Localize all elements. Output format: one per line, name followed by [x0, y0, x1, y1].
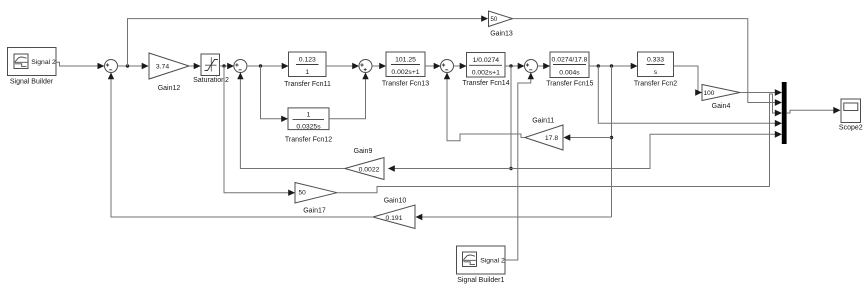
block Signal Builder — [8, 48, 57, 86]
summing junction Sum5 — [525, 60, 538, 73]
svg-text:0.0274/17.8: 0.0274/17.8 — [552, 56, 588, 63]
block Transfer Fcn14 — [462, 53, 509, 88]
wire branch Transfer Fcn15 down to node B — [611, 66, 613, 217]
svg-text:0.333: 0.333 — [647, 56, 664, 63]
wire Transfer Fcn13 to Sum4 — [425, 63, 441, 69]
wire node B to Gain11 — [564, 134, 612, 140]
svg-text:Gain13: Gain13 — [490, 30, 513, 37]
wire Sum5 to Transfer Fcn15 — [538, 63, 551, 69]
wire node A to Gain9 — [388, 165, 511, 171]
svg-text:0.191: 0.191 — [385, 215, 402, 222]
svg-text:Transfer Fcn11: Transfer Fcn11 — [284, 81, 331, 88]
wire Saturation2 to Sum2 — [220, 63, 235, 69]
svg-text:50: 50 — [491, 17, 498, 23]
summing junction Sum3 — [359, 60, 372, 73]
svg-text:0.123: 0.123 — [299, 56, 316, 63]
gain Gain12 — [149, 53, 189, 92]
node A junction — [509, 167, 512, 170]
wire node B to Gain10 — [416, 214, 612, 220]
wire Signal Builder to Sum1 — [56, 62, 104, 69]
svg-text:Gain9: Gain9 — [354, 148, 373, 155]
wire Transfer Fcn14 to Sum5 — [505, 63, 525, 69]
block Transfer Fcn15 — [546, 52, 593, 88]
svg-text:Signal Builder1: Signal Builder1 — [457, 277, 504, 284]
summing junction Sum1 — [105, 60, 118, 73]
svg-text:Scope2: Scope2 — [839, 125, 863, 132]
svg-text:Gain4: Gain4 — [712, 103, 731, 110]
svg-text:Transfer Fcn2: Transfer Fcn2 — [634, 81, 677, 88]
wire branch Sum1 to Gain13 (top line) — [128, 15, 489, 66]
svg-text:Transfer Fcn13: Transfer Fcn13 — [382, 81, 429, 88]
svg-text:0.002s+1: 0.002s+1 — [391, 69, 419, 76]
wire Sum3 to Transfer Fcn13 — [372, 63, 386, 69]
svg-text:Gain11: Gain11 — [532, 117, 554, 124]
svg-text:Gain17: Gain17 — [303, 208, 326, 215]
svg-text:1: 1 — [307, 112, 311, 119]
block Saturation2 — [193, 54, 229, 84]
wire Mux to Scope2 — [787, 107, 841, 114]
svg-text:Gain10: Gain10 — [384, 197, 407, 204]
gain Gain10 — [373, 197, 415, 228]
svg-text:Signal 2: Signal 2 — [31, 59, 56, 66]
gain Gain4 — [702, 85, 740, 111]
svg-text:0.0325s: 0.0325s — [296, 123, 321, 130]
svg-text:100: 100 — [704, 90, 715, 97]
wire Transfer Fcn11 to Sum3 — [326, 63, 359, 69]
svg-text:1: 1 — [305, 69, 309, 76]
wire Sum2 to Transfer Fcn11 — [247, 63, 289, 69]
wire branch Saturation2 to Gain17 — [224, 66, 295, 196]
wire Gain17 to Mux input 3 — [337, 94, 782, 193]
svg-text:Transfer Fcn14: Transfer Fcn14 — [462, 80, 509, 87]
svg-text:17.8: 17.8 — [545, 135, 558, 142]
block Transfer Fcn11 — [284, 52, 331, 88]
svg-text:s: s — [654, 69, 658, 76]
gain Gain9 — [345, 148, 384, 180]
wire Gain4 to Mux input 1 — [740, 89, 782, 96]
wire Sum1 to Gain12 — [118, 63, 149, 69]
wire Transfer Fcn2 to Gain4 — [674, 66, 703, 96]
svg-text:0.0022: 0.0022 — [359, 166, 380, 173]
wire node A to Mux input 5 — [511, 131, 782, 169]
wire Signal Builder1 to Sum5 — [505, 73, 534, 261]
svg-text:Gain12: Gain12 — [158, 85, 181, 92]
wire Gain11 to Sum4 — [444, 73, 525, 141]
wire Gain12 to Saturation2 — [189, 63, 201, 69]
block Transfer Fcn12 — [285, 108, 332, 144]
svg-text:Signal Builder: Signal Builder — [10, 79, 54, 86]
gain Gain11 — [525, 117, 563, 150]
block Signal Builder1 — [457, 246, 506, 284]
block Scope2 — [839, 99, 863, 132]
svg-text:Transfer Fcn12: Transfer Fcn12 — [285, 137, 332, 144]
svg-text:1/0.0274: 1/0.0274 — [473, 57, 500, 64]
mux Mux1 — [782, 82, 787, 144]
gain Gain13 — [489, 11, 513, 37]
block Transfer Fcn2 — [634, 52, 677, 88]
wire Gain9 to Sum2 — [237, 73, 345, 169]
block Transfer Fcn13 — [382, 52, 429, 88]
wire Gain10 to Sum1 — [108, 73, 373, 218]
summing junction Sum4 — [441, 60, 454, 73]
gain Gain17 — [295, 183, 337, 215]
svg-text:3.74: 3.74 — [156, 64, 169, 71]
svg-text:Signal 2: Signal 2 — [480, 257, 505, 264]
svg-text:50: 50 — [299, 190, 307, 197]
svg-text:0.002s+1: 0.002s+1 — [472, 70, 500, 77]
wire Transfer Fcn15 to Transfer Fcn2 — [589, 63, 638, 69]
svg-text:0.004s: 0.004s — [559, 69, 580, 76]
wire Gain13 to Mux input 2 — [513, 19, 783, 106]
wire branch Transfer Fcn14 down to node A — [510, 66, 512, 169]
wire Sum4 to Transfer Fcn14 — [454, 63, 467, 69]
wire branch Sum2 to Transfer Fcn12 — [261, 66, 289, 122]
svg-text:Transfer Fcn15: Transfer Fcn15 — [546, 81, 593, 88]
wire branch Transfer Fcn15 to Mux input 4 — [598, 66, 782, 127]
node B junction — [610, 136, 613, 139]
summing junction Sum2 — [234, 60, 247, 73]
wire Transfer Fcn12 to Sum3 — [329, 73, 369, 119]
svg-text:101.25: 101.25 — [395, 56, 416, 63]
